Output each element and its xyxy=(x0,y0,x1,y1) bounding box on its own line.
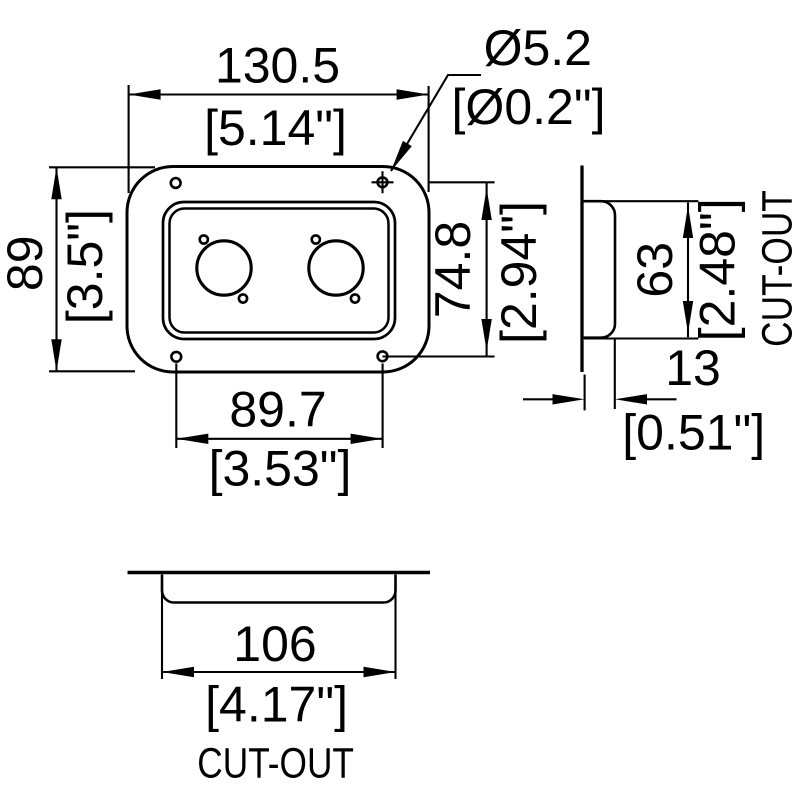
dimension 89.7 extension lines xyxy=(176,364,382,449)
side view dish profile xyxy=(584,201,616,338)
svg-text:[4.17"]: [4.17"] xyxy=(205,676,348,732)
dimension 13 line and tails xyxy=(523,398,677,400)
arrowheads dimension 74.8 xyxy=(481,188,491,220)
dimension 130.5 line xyxy=(129,93,429,95)
D-hole left screw holes xyxy=(200,235,208,243)
arrowheads dimension 89 xyxy=(51,167,61,199)
recess inner edge xyxy=(170,209,389,333)
svg-text:[Ø0.2"]: [Ø0.2"] xyxy=(452,79,606,135)
svg-text:[3.5"]: [3.5"] xyxy=(57,209,113,324)
svg-text:[2.94"]: [2.94"] xyxy=(491,201,547,344)
recess outer edge xyxy=(163,202,395,339)
bottom view dish profile xyxy=(162,575,396,603)
D-hole right xyxy=(309,241,363,295)
arrowheads dimension 89.7 xyxy=(176,434,208,444)
svg-text:130.5: 130.5 xyxy=(215,37,340,93)
svg-text:[5.14"]: [5.14"] xyxy=(204,100,347,156)
D-hole right screw holes xyxy=(312,235,320,243)
dimension 74.8 extension lines xyxy=(383,182,495,356)
svg-text:CUT-OUT: CUT-OUT xyxy=(197,739,354,787)
dimension 13 extension lines xyxy=(585,339,615,410)
svg-text:89: 89 xyxy=(0,235,53,291)
crosshair on top-right hole xyxy=(372,171,394,193)
corner hole bottom-left xyxy=(171,352,181,362)
dimension 63 line xyxy=(687,203,689,338)
svg-text:63: 63 xyxy=(627,242,683,298)
dimension 89.7 line xyxy=(176,438,382,440)
arrowheads dimension 130.5 xyxy=(129,89,161,99)
arrowheads dimension 106 xyxy=(162,667,194,677)
dimension 106 line xyxy=(162,671,396,673)
side view flange xyxy=(580,166,583,373)
svg-text:Ø5.2: Ø5.2 xyxy=(484,20,592,76)
svg-text:[0.51"]: [0.51"] xyxy=(622,405,765,461)
corner hole top-left xyxy=(171,178,181,188)
corner hole top-right xyxy=(378,177,388,187)
arrowhead leader xyxy=(387,141,412,174)
corner hole bottom-right xyxy=(378,351,388,361)
D-hole left xyxy=(197,241,251,295)
dimension 63 extension lines xyxy=(584,201,698,338)
dimension 130.5 extension lines xyxy=(129,85,429,193)
dimension 106 extension lines xyxy=(162,577,396,679)
svg-text:[3.53"]: [3.53"] xyxy=(209,441,352,497)
arrowheads dimension 13 (outside) xyxy=(553,394,585,404)
svg-text:13: 13 xyxy=(665,340,721,396)
front view outer plate xyxy=(127,167,429,373)
svg-text:[2.48"]: [2.48"] xyxy=(690,198,746,341)
arrowheads dimension 63 xyxy=(683,206,693,238)
dimension 89 line xyxy=(55,167,57,371)
svg-text:106: 106 xyxy=(233,616,316,672)
dimension 89 extension lines xyxy=(49,167,155,371)
dimension 74.8 line xyxy=(486,182,488,356)
svg-text:74.8: 74.8 xyxy=(425,221,481,318)
leader line for hole diameter xyxy=(391,75,481,171)
bottom view flange xyxy=(128,571,431,575)
svg-text:89.7: 89.7 xyxy=(229,382,326,438)
svg-text:CUT-OUT: CUT-OUT xyxy=(753,190,800,347)
